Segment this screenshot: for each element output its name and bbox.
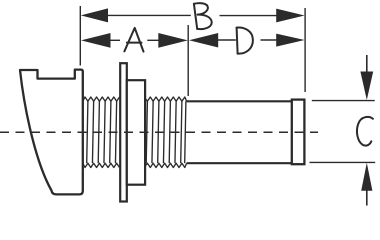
C top arrow (pointing down) [366, 55, 368, 73]
label B [194, 3, 212, 29]
C bottom extension line [310, 161, 376, 163]
extension line right (x=305.1) [304, 8, 306, 92]
barrel top edge [187, 100, 292, 102]
dimension D line [218, 39, 236, 41]
dimension B line [106, 14, 191, 16]
dimension D right arrowhead [276, 34, 304, 47]
hose barb end cap [292, 100, 305, 165]
centerline (dashed) [0, 131, 318, 133]
bottom crest zigzag [145, 163, 186, 167]
dimension D left arrowhead [189, 33, 218, 48]
extension line left (x=80.3) [79, 6, 81, 66]
barrel bottom edge [187, 162, 292, 164]
label C [357, 117, 373, 146]
dimension B left arrowhead [81, 8, 108, 22]
C bottom arrow (pointing up) [366, 190, 368, 206]
label A [124, 28, 143, 52]
thread section 2 (between nut and barrel) [145, 97, 186, 168]
thread flank lines [87, 101, 88, 163]
dimension A left arrowhead [81, 33, 111, 48]
flange body (scupper housing, left) [20, 70, 83, 195]
thread section 1 (between flange and washer) [83, 97, 120, 168]
dimension B right arrowhead [276, 9, 304, 23]
top crest zigzag [83, 97, 120, 101]
dimension A right arrowhead [158, 33, 188, 48]
extension line middle (x=188.2) [187, 25, 189, 96]
label D [237, 27, 253, 53]
bottom crest zigzag [83, 163, 120, 167]
lock nut [127, 80, 145, 185]
top crest zigzag [145, 97, 186, 101]
dimension A line [110, 39, 121, 41]
thread flank lines [146, 101, 147, 163]
washer / gasket plate [120, 63, 127, 201]
C top extension line [312, 100, 375, 102]
